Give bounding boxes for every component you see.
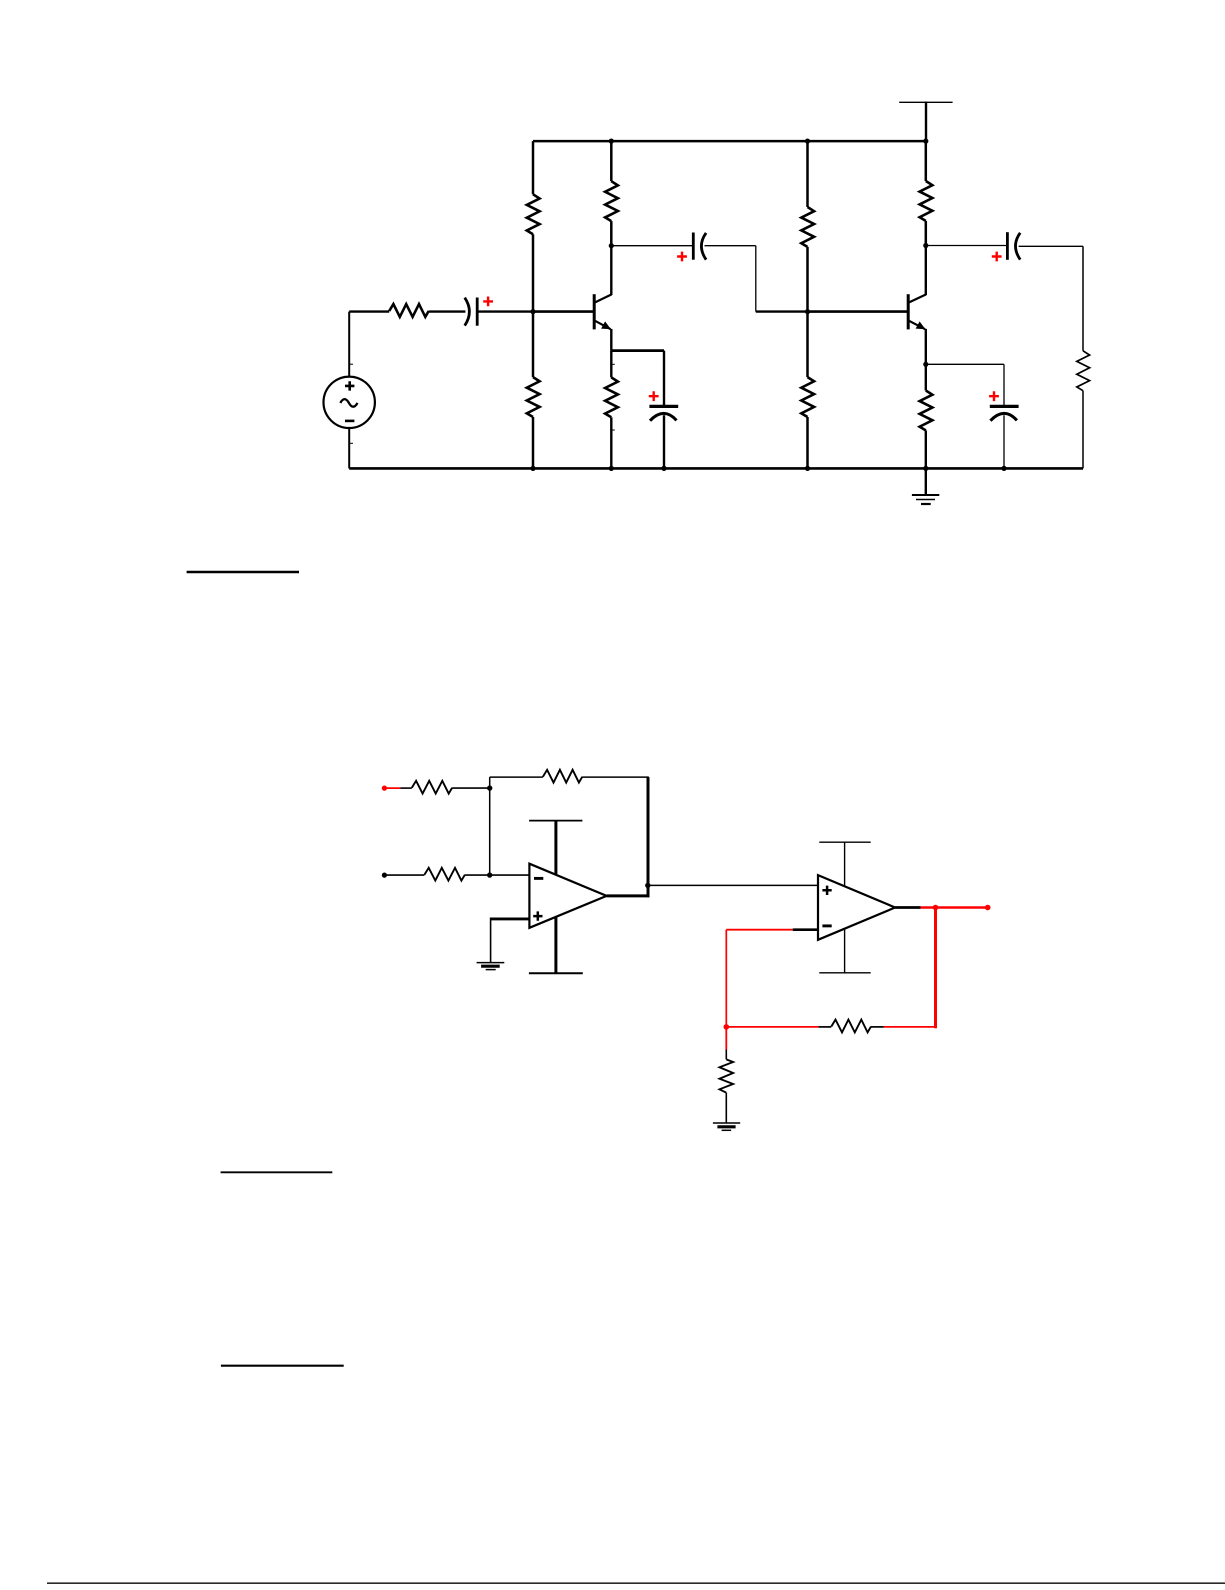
wire: R1 to base node 1: [532, 234, 535, 311]
wire: top VCC rail: [533, 140, 926, 143]
polarity + of CE2: [989, 391, 999, 401]
node: collector 2 output junction: [923, 243, 928, 248]
pin tick RE1 bottom: [611, 429, 615, 431]
ground symbol (circuit 2): [713, 1123, 740, 1130]
node B (feedback divider, red): [724, 1024, 730, 1030]
ground symbol (U1 + input): [477, 963, 505, 970]
wire: C4 to load corner (thin): [1019, 245, 1083, 247]
wire: collector node 1 down to Q1 collector: [610, 246, 612, 295]
resistor RC2 (collector load 2): [920, 181, 933, 221]
U2 negative supply rail: [819, 929, 870, 973]
node: base 2 junction: [805, 309, 810, 314]
VCC power symbol: [899, 102, 952, 142]
wire: RB to node A2: [465, 874, 490, 876]
wire: emitter node 1 down to RE1: [610, 351, 612, 378]
wire: red vertical node B up to minus input: [725, 930, 727, 1027]
wire: emitter node 2 to bypass cap CE2 (thin): [926, 363, 1004, 365]
wire: collector node 2 to output cap C4 (thin): [926, 245, 1008, 247]
heading underline 3: [221, 1365, 344, 1367]
wire: base node 2 down to R4: [806, 312, 809, 378]
resistor RF (feedback op-amp U1): [543, 770, 582, 783]
resistor R2 (lower bias divider 1): [527, 377, 540, 417]
wire: bottom ground rail: [349, 467, 1083, 470]
wire: RG to ground: [725, 1093, 727, 1123]
wire: emitter node 2 down to RE2: [925, 364, 927, 390]
wire: Q1 emitter down to emitter node 1: [610, 329, 612, 351]
U1 negative supply rail: [529, 917, 583, 974]
ground symbol (circuit 1): [912, 468, 939, 504]
wire: C2 to corner (thin): [705, 245, 756, 247]
polarity + of C2: [677, 252, 687, 262]
wire: red feedback bottom right segment: [884, 1026, 936, 1028]
node: rail at divider 2: [805, 466, 810, 471]
U2 positive supply rail: [819, 842, 870, 886]
wire: load branch down to RL (thin): [1082, 246, 1084, 350]
transistor Q2 (NPN): [908, 294, 926, 329]
resistor RL (load): [1077, 351, 1090, 391]
wire: red input stub IN1: [384, 787, 400, 789]
wire: U1 + input stub (thick): [491, 917, 530, 920]
wire: feedback vertical to U1 output (thick): [647, 777, 650, 897]
heading underline 1: [187, 571, 299, 573]
node IN2 terminal: [382, 873, 387, 878]
resistor R4 (lower bias divider 2): [801, 377, 814, 417]
capacitor C1 (input coupling, polarized): [465, 298, 478, 326]
polarity + of CE1: [649, 391, 659, 401]
wire: IN1 to RA: [400, 787, 411, 789]
wire: CE1 top lead: [663, 351, 665, 405]
wire: IN2 to RB: [384, 874, 424, 876]
node: rail at CE2: [1001, 466, 1006, 471]
node: collector 1 output junction: [609, 243, 614, 248]
node: emitter 2 junction: [923, 362, 928, 367]
node A2 junction: [487, 872, 492, 877]
AC source V1: [324, 377, 375, 428]
heading underline 2: [221, 1171, 333, 1173]
node: rail junction at divider 2: [805, 139, 810, 144]
wire: R4 to ground rail: [806, 417, 809, 468]
wire: emitter node 1 to bypass cap CE1: [611, 349, 664, 352]
wire: divider 2 upper lead: [806, 141, 809, 207]
wire: collector node 1 to coupling cap C2 (thin): [611, 245, 693, 247]
wire: collector branch 1 from rail: [610, 141, 613, 181]
wire: U2 minus input red segment: [726, 929, 792, 931]
page bottom rule: [47, 1582, 1225, 1584]
node A (inverting input net): [487, 785, 492, 790]
node OUT terminal (red): [985, 905, 991, 911]
wire: R2 to ground rail: [532, 417, 535, 468]
wire: C1 to base node 1: [477, 310, 533, 312]
resistor RB (input 2): [424, 868, 465, 881]
capacitor C2 (interstage coupling, polarized): [693, 233, 706, 260]
wire: CE2 bottom lead (thin): [1003, 415, 1005, 468]
pin tick RE1 top: [611, 363, 615, 365]
resistor RC1 (collector load 1): [605, 181, 618, 221]
wire: U2 output red: [921, 906, 988, 909]
resistor RA (input 1): [412, 781, 452, 794]
wire: RF to feedback corner: [582, 776, 649, 778]
wire: U2 minus input black stub: [793, 928, 818, 931]
wire: red feedback bottom left segment: [726, 1026, 818, 1028]
node: rail junction under VCC: [923, 139, 928, 144]
wire: node A2 to U1 minus input: [490, 874, 530, 876]
wire: black lead to RG: [725, 1050, 727, 1060]
wire: red stub node B down: [725, 1027, 727, 1050]
node: output junction (red): [933, 905, 939, 911]
node: rail at RE2: [923, 466, 928, 471]
wire: RC2 to collector node 2: [925, 221, 928, 246]
wire: input line to resistor Rs: [349, 310, 389, 312]
resistor R1 (upper bias divider 1): [527, 194, 540, 234]
U1 positive supply rail: [529, 821, 582, 876]
wire: R3 to base node 2: [806, 247, 809, 312]
capacitor C4 (output coupling, polarized): [1007, 232, 1020, 260]
wire: U1 apex to feedback vertical (thick): [607, 894, 650, 897]
wire: CE2 top lead (thin): [1003, 364, 1005, 405]
resistor R3 (upper bias divider 2): [801, 207, 814, 247]
wire: divider 1 upper lead: [532, 141, 535, 194]
resistor RE2 (emitter 2): [920, 391, 933, 431]
wire: base node 2 to Q2 base: [808, 310, 909, 313]
capacitor CE2 (emitter bypass 2, polarized): [990, 406, 1019, 420]
wire: + input down to ground: [490, 918, 492, 963]
op-amp U2: [818, 875, 895, 940]
wire: collector branch 2 from rail: [925, 141, 928, 181]
wire: source bottom lead: [348, 428, 350, 469]
wire: CE1 bottom lead: [663, 415, 665, 468]
node: base 1 junction: [530, 309, 535, 314]
resistor RG (to ground): [720, 1059, 734, 1092]
pin tick source bottom: [349, 442, 353, 444]
polarity + of C4: [992, 252, 1002, 262]
wire: RL to ground rail (thin): [1082, 391, 1084, 469]
resistor RF2 (U2 feedback): [818, 1020, 883, 1033]
resistor RE1 (emitter 1): [605, 377, 618, 417]
node: U1 output junction: [645, 883, 650, 888]
wire: corner down to base line 2 (thin): [755, 246, 757, 312]
polarity + of C1: [483, 297, 493, 307]
wire: Q2 emitter down to emitter node 2: [925, 329, 927, 364]
wire: red feedback vertical (thick): [934, 908, 937, 1029]
wire: node A up to feedback row: [489, 777, 491, 788]
capacitor CE1 (emitter bypass 1, polarized): [649, 406, 678, 420]
wire: Rs to capacitor C1: [429, 310, 466, 312]
wire: corner to base node 2: [756, 310, 808, 312]
node: rail at divider 1: [530, 466, 535, 471]
node IN1 terminal (red): [382, 786, 387, 791]
wire: node A down to inverting input: [489, 788, 491, 875]
wire: feedback row to RF: [490, 776, 543, 778]
resistor Rs (source resistance): [389, 304, 429, 317]
node: rail at RE1: [609, 466, 614, 471]
pin tick source top: [349, 363, 353, 365]
wire: base node 1 to Q1 base: [533, 310, 594, 313]
op-amp U1: [529, 864, 606, 928]
node: rail junction at collector branch 1: [609, 139, 614, 144]
wire: RC1 to collector node 1: [610, 221, 613, 246]
node: rail at CE1: [661, 466, 666, 471]
transistor Q1 (NPN): [594, 294, 611, 329]
wire: RE1 to ground rail: [610, 417, 612, 468]
wire: base node 1 down to R2: [532, 312, 535, 378]
wire: source top lead: [348, 312, 350, 377]
wire: U1 output to U2 + input (thin): [648, 884, 818, 886]
wire: RE2 to ground rail: [925, 430, 927, 468]
wire: RA to node A: [452, 787, 490, 789]
wire: collector node 2 down to Q2 collector: [925, 246, 927, 296]
wire: U2 output black stub: [895, 906, 921, 909]
